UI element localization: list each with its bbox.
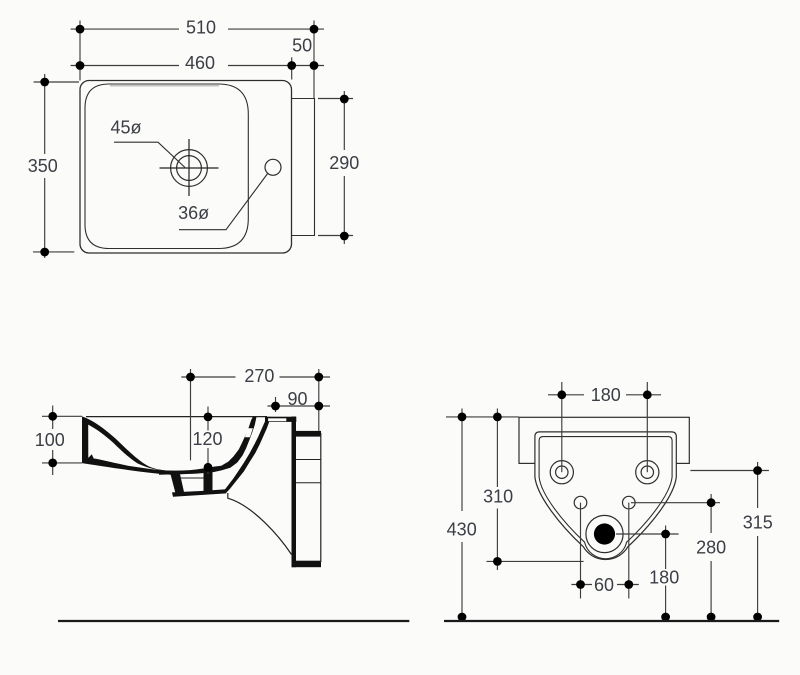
ext line 350 top <box>34 81 79 83</box>
ext line left 510 <box>79 21 81 81</box>
overflow hole 36ø circle <box>265 159 281 175</box>
mounting hole right outer <box>636 461 659 484</box>
dim line 430 <box>461 409 463 618</box>
dim texts top view <box>28 17 360 223</box>
svg-text:510: 510 <box>186 17 216 37</box>
bracket shield outer (rear view) <box>535 432 676 560</box>
top ledge bar (side view) <box>265 417 296 422</box>
rim wedge (side view section) <box>82 416 177 475</box>
small hole right <box>623 496 636 509</box>
ext line 180 right <box>646 382 648 472</box>
svg-text:60: 60 <box>594 575 614 595</box>
drain funnel right wall <box>204 470 213 492</box>
mounting hole left inner <box>556 466 568 478</box>
bottom foot bar (side view) <box>292 561 322 568</box>
svg-text:36ø: 36ø <box>178 203 209 223</box>
ext line 60 right <box>628 503 630 599</box>
ground line (rear view) <box>444 620 779 622</box>
ext line 270 right / 90 right <box>318 369 320 431</box>
ext line 280 top <box>631 502 720 504</box>
dim texts rear view <box>446 385 774 595</box>
ext line 180 left <box>561 382 563 472</box>
dim line 310 <box>496 409 498 571</box>
bracket top bar (side view) <box>296 431 321 437</box>
drain hole filled <box>594 523 615 544</box>
basin outer rim (top view) <box>80 81 292 254</box>
bowl back wall exterior band <box>225 417 271 493</box>
dim line 180 top <box>548 394 661 396</box>
svg-text:45ø: 45ø <box>110 118 141 138</box>
svg-text:290: 290 <box>329 153 359 173</box>
ext line 60 left <box>580 503 582 599</box>
dim line 460 <box>71 65 324 67</box>
overflow slot (side view) <box>245 428 253 437</box>
dim line 60 <box>571 584 638 586</box>
dim line 270 <box>181 376 330 378</box>
svg-text:430: 430 <box>447 520 477 540</box>
svg-text:90: 90 <box>287 389 307 409</box>
svg-text:50: 50 <box>292 36 312 56</box>
dim texts side view <box>35 366 308 450</box>
bracket divider lines <box>296 459 321 461</box>
svg-text:180: 180 <box>649 568 679 588</box>
faucet crosshair vertical <box>188 139 190 196</box>
ext line top rear (430/310) <box>446 416 519 418</box>
leader line 45ø <box>114 142 185 167</box>
ext tick 460 right <box>291 57 293 79</box>
faucet hole 45ø outer circle <box>171 150 208 187</box>
dim dots rear view <box>458 390 762 621</box>
drain funnel left wall <box>170 472 184 493</box>
faucet hole inner circle <box>177 156 202 181</box>
dim line 180 vertical <box>665 526 667 618</box>
dim line 350 <box>44 74 46 258</box>
ext line 100 bottom <box>42 462 82 464</box>
shroud arc (side view) <box>228 493 292 555</box>
mounting hole left outer <box>550 461 573 484</box>
svg-text:310: 310 <box>483 487 513 507</box>
bowl floor and back wall interior band <box>159 417 257 475</box>
basin bowl inner edge (top view) <box>85 84 248 249</box>
svg-text:100: 100 <box>35 430 65 450</box>
svg-text:120: 120 <box>192 429 222 449</box>
funnel interior line <box>180 477 204 479</box>
dim line 120 <box>207 407 209 474</box>
svg-text:180: 180 <box>591 385 621 405</box>
ext line 290 top <box>318 98 353 100</box>
dim dots top view <box>40 25 348 257</box>
ext line 310 bottom <box>487 560 584 562</box>
svg-text:270: 270 <box>244 366 274 386</box>
ext line 100 top <box>42 415 82 417</box>
ground line (side view) <box>58 620 409 622</box>
ext line 270 left <box>190 369 192 460</box>
dim line 510 <box>71 28 324 30</box>
bracket shield inner line <box>539 437 672 559</box>
ext line right 510 <box>313 21 315 99</box>
mounting hole right inner <box>641 466 653 478</box>
dim line 315 <box>757 462 759 617</box>
dim line 290 <box>343 91 345 244</box>
svg-text:280: 280 <box>696 538 726 558</box>
ext line 180 mid <box>616 533 679 535</box>
deck line (side view) <box>86 416 267 418</box>
back wall bar (side view) <box>292 417 297 568</box>
ledge slot <box>268 418 286 421</box>
bowl deck secondary line <box>110 85 219 87</box>
ext tick 90 left <box>275 397 277 412</box>
dim dots side view <box>48 373 323 472</box>
faucet crosshair horizontal <box>160 167 219 169</box>
small hole left <box>574 496 587 509</box>
svg-text:460: 460 <box>185 53 215 73</box>
ext line 290 bottom <box>318 235 353 237</box>
drain outer circle (rear view) <box>586 515 623 552</box>
leader line 36ø <box>179 173 268 230</box>
ext line 350 bottom <box>33 251 74 253</box>
svg-text:315: 315 <box>743 513 773 533</box>
dim line 280 <box>710 494 712 617</box>
drain funnel bottom bar <box>172 489 226 497</box>
dim line 100 <box>52 406 54 476</box>
dim line 90 <box>268 405 331 407</box>
right mounting tab (top view) <box>292 99 315 236</box>
basin back outline (rear view) <box>519 417 689 463</box>
bracket right edge <box>320 433 322 562</box>
ext line 315 top <box>690 470 769 472</box>
svg-text:350: 350 <box>28 156 58 176</box>
